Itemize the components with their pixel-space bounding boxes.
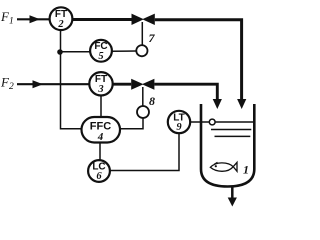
- valve 8 actuator circle: [137, 106, 149, 118]
- wire F2 inlet arrow: [17, 80, 89, 88]
- tank 1 shell: [201, 104, 254, 187]
- svg-text:5: 5: [98, 51, 103, 62]
- junction node: [57, 49, 63, 55]
- wire LC6 to LT9: [110, 134, 179, 171]
- valve 7: [132, 14, 155, 25]
- flow controller FC5: [90, 40, 112, 62]
- wire FFC4 down to LC6: [99, 143, 101, 161]
- svg-text:2: 2: [57, 19, 64, 30]
- wire F1 inlet arrow: [17, 15, 49, 23]
- wire FC5 to valve7 actuator: [112, 50, 136, 52]
- valve 8: [131, 79, 154, 90]
- wire FT2 down to junction and FFC4: [61, 30, 82, 129]
- wire valve8 stem: [142, 87, 144, 106]
- wire LT9 to tank nozzle: [190, 121, 209, 123]
- level controller LC6: [88, 160, 110, 182]
- wire FT3 to valve8: [113, 83, 132, 86]
- wire FFC4 to valve8 actuator: [120, 118, 143, 129]
- flow transmitter FT2: [50, 7, 73, 30]
- wire valve7 stem: [141, 22, 143, 45]
- liquid line 3: [215, 135, 251, 137]
- svg-text:8: 8: [149, 94, 155, 108]
- wire FT3 down to FFC4: [100, 96, 102, 118]
- wire tank outlet arrow: [228, 187, 237, 207]
- ratio controller FFC4: [82, 117, 121, 143]
- svg-text:3: 3: [97, 84, 103, 95]
- svg-text:6: 6: [96, 171, 102, 182]
- fish: [210, 162, 237, 171]
- liquid line 2: [211, 129, 251, 131]
- wire valve8 to corner and down to tank: [154, 84, 222, 109]
- wire junction to FC5: [61, 51, 91, 53]
- svg-text:1: 1: [243, 163, 249, 177]
- tank nozzle circle: [209, 119, 215, 125]
- valve 7 actuator circle: [136, 45, 147, 56]
- liquid surface line: [215, 121, 253, 123]
- svg-text:4: 4: [97, 131, 104, 143]
- svg-text:7: 7: [149, 31, 156, 45]
- level transmitter LT9: [168, 111, 190, 133]
- wire FT2 to valve7: [73, 18, 132, 21]
- svg-text:9: 9: [176, 122, 182, 133]
- flow transmitter FT3: [89, 72, 112, 95]
- wire valve7 to right corner and down to tank: [155, 20, 247, 109]
